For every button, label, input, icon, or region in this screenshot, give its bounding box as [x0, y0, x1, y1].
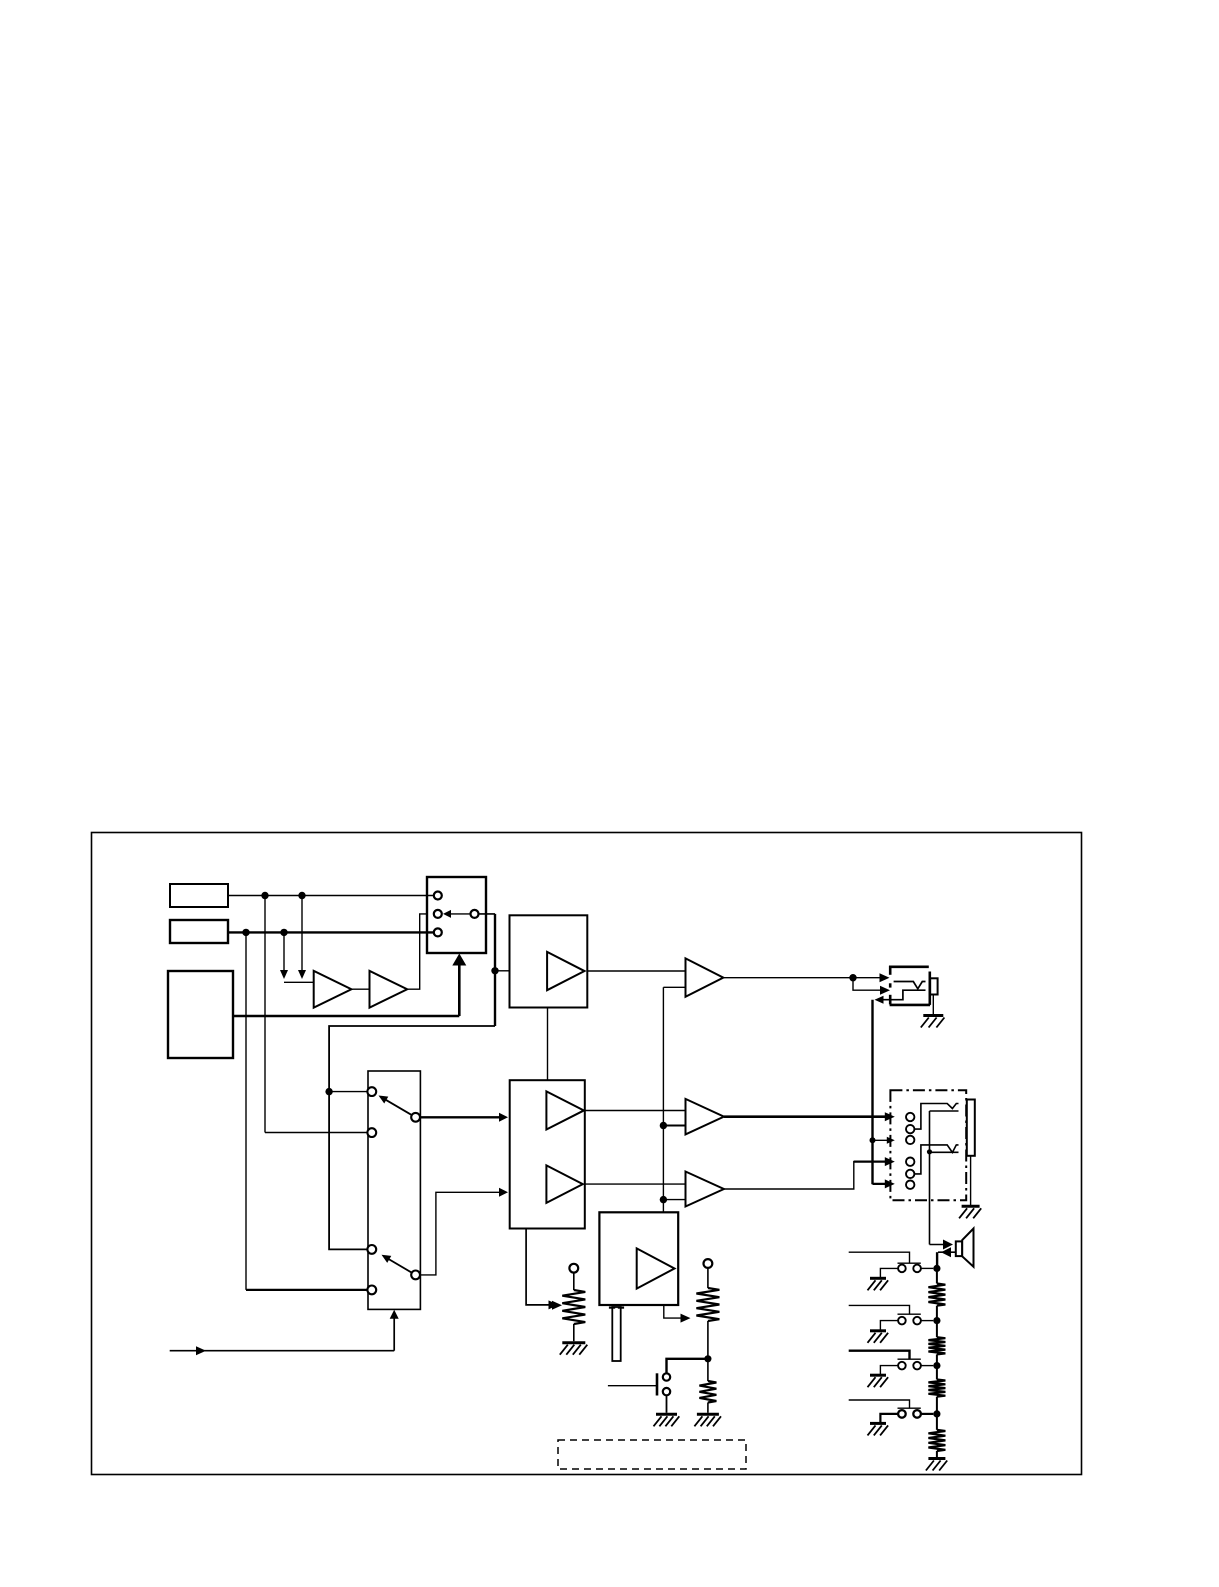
- arrow out of speaker (-): [938, 1251, 956, 1253]
- wire U1 output to amp A2: [587, 970, 685, 972]
- J2 pin 2: [906, 1125, 914, 1133]
- wire node 4 to resistor R4: [936, 1414, 938, 1430]
- arrow into speaker (+): [930, 1244, 948, 1246]
- wire SW3 to ground: [880, 1321, 898, 1330]
- wire IN2 to S1 pin 3: [228, 931, 434, 933]
- wire SW1 to ground: [666, 1395, 668, 1413]
- switch SW4 contact b: [913, 1362, 921, 1370]
- wire resistor R2 down: [936, 1354, 938, 1365]
- wire junction to A3 lower input: [663, 1125, 685, 1127]
- wire node A vertical: [494, 914, 496, 1026]
- junction dot ladder node 1: [933, 1265, 940, 1272]
- J2 sleeve bar: [967, 1100, 975, 1156]
- switch SW5 contact a: [898, 1410, 906, 1418]
- switch SW2 contact a: [898, 1265, 906, 1273]
- switch SW3 contact b: [913, 1317, 921, 1325]
- wire SW4 to ground: [880, 1366, 898, 1375]
- wire SW3 to ladder: [921, 1320, 933, 1322]
- wire U2 bottom to volume pot VR1 wiper: [526, 1229, 552, 1305]
- S2 lower wiper arm with arrow: [385, 1257, 413, 1273]
- switch SW3 contact a: [898, 1317, 906, 1325]
- pushbutton SW1 contacts: [663, 1373, 670, 1380]
- pot VR1 resistor body: [562, 1290, 585, 1324]
- ground at ladder bottom: [928, 1457, 945, 1460]
- wire IN1 to S1 pin 1: [228, 895, 434, 897]
- junction dot distribution to A3: [660, 1122, 667, 1129]
- ground for SW4: [870, 1374, 886, 1377]
- junction dot on IN2 wire (x284): [280, 929, 287, 936]
- junction dot on J1-J2 wire: [870, 1137, 876, 1143]
- wire U3 output to pot VR2 wiper: [664, 1305, 682, 1318]
- wire SW2 to ladder: [921, 1267, 933, 1269]
- resistor R4: [928, 1430, 945, 1451]
- ground under R5: [697, 1413, 719, 1416]
- amplifier A4: [686, 1172, 724, 1207]
- selector switch box S2: [368, 1071, 420, 1309]
- S1 pin 1: [434, 892, 442, 900]
- wire R5 to ground: [707, 1403, 709, 1413]
- pot VR2 wire: [707, 1268, 709, 1288]
- junction dot on S2 feed (x329): [325, 1088, 332, 1095]
- wire junction to A4 lower input: [663, 1199, 685, 1201]
- pot VR1 wire: [573, 1273, 575, 1290]
- amplifier triangle in U3: [637, 1248, 675, 1288]
- ground under J1: [923, 1014, 943, 1017]
- S1 pin 2: [434, 910, 442, 918]
- wire CTRL block to S1 control arrow: [233, 1015, 459, 1018]
- amp block U3: [599, 1212, 678, 1305]
- wire from x302 junction down to amp A1 input (arrow): [301, 896, 303, 971]
- pot VR1 wiper arrowhead: [552, 1301, 562, 1310]
- junction dot on IN1 wire (x265): [261, 892, 268, 899]
- amplifier A1a: [314, 971, 352, 1008]
- ground for SW2: [870, 1277, 886, 1280]
- J2 pin 5: [906, 1170, 914, 1178]
- wire control into SW1: [608, 1385, 658, 1387]
- wire J1 switch contact down to jack box J2: [871, 1000, 873, 1184]
- switch SW2 contact b: [913, 1265, 921, 1273]
- wire tee into A2 lower input: [663, 986, 685, 988]
- arrow junction to J2 pin 3: [873, 1139, 891, 1141]
- wire SW4 to ladder: [921, 1365, 933, 1367]
- junction dot distribution to A4: [660, 1196, 667, 1203]
- speaker horn: [962, 1229, 973, 1267]
- wire U2 lower output to A4: [585, 1183, 686, 1185]
- pot VR1 top terminal: [569, 1264, 578, 1273]
- ground under SW1: [656, 1413, 677, 1416]
- wire A1a to A1b: [351, 988, 369, 990]
- junction dot node B: [704, 1355, 711, 1362]
- S2 pin c2 (common upper): [411, 1113, 420, 1122]
- junction dot on IN2 wire (x246): [242, 929, 249, 936]
- dashed box (note area): [558, 1440, 746, 1469]
- arrow control into S2 bottom: [393, 1315, 395, 1351]
- ground for SW3: [870, 1329, 886, 1332]
- amp block U1: [510, 915, 588, 1007]
- S2 upper wiper arm with arrow: [382, 1097, 413, 1115]
- wire node 2 to resistor R2: [936, 1321, 938, 1338]
- junction dot on IN1 wire (x302): [298, 892, 305, 899]
- switch SW5 contact b: [913, 1410, 921, 1418]
- J1 tip contact with V notch: [894, 982, 926, 989]
- J2 lower jack tip contact with V notch: [914, 1145, 958, 1174]
- wire node 1 to resistor R1: [936, 1268, 938, 1283]
- wire node B to pushbutton SW1: [667, 1359, 708, 1374]
- block IN1 (upper small box): [170, 884, 228, 907]
- amplifier triangle U2 upper: [546, 1091, 584, 1129]
- J2 pin 3: [906, 1136, 914, 1144]
- switch SW4 control wire: [849, 1351, 910, 1360]
- amplifier triangle in U1: [547, 952, 584, 990]
- wire A1b output up to S1 pin 2: [407, 914, 427, 989]
- wire from x284 junction down to amp A1 input (arrow): [283, 932, 285, 970]
- wire resistor R4 down: [936, 1451, 938, 1457]
- S2 pin c1: [367, 1087, 376, 1096]
- ground under J2: [962, 1205, 980, 1208]
- wire distribution vertical (x663): [662, 987, 664, 1212]
- arrow wire bottom to J2 pin 6: [873, 1183, 891, 1185]
- S2 pin c6: [367, 1286, 376, 1295]
- wire from x246 junction down to selector S2 pin c6: [245, 932, 247, 1290]
- wire node A to amp block U1 input: [495, 970, 510, 972]
- switch SW2 actuator bracket: [898, 1262, 921, 1264]
- S2 pin c3: [367, 1128, 376, 1137]
- wire A4 output to J2 pin4: [724, 1162, 889, 1189]
- pot VR2 resistor body: [696, 1288, 719, 1321]
- switch SW5 actuator bracket: [898, 1407, 921, 1409]
- junction dot on speaker wire: [927, 1149, 932, 1154]
- wire J2 to speaker (vertical): [929, 1111, 931, 1245]
- switch SW2 control wire: [849, 1252, 910, 1263]
- block IN2 (lower small box): [170, 920, 228, 943]
- J2 upper jack tip contact with V notch: [914, 1104, 958, 1130]
- switch SW3 actuator bracket: [898, 1313, 921, 1315]
- J2 upper jack switch contact: [930, 1110, 959, 1112]
- ground under VR1: [562, 1341, 585, 1344]
- amplifier A2: [686, 958, 724, 996]
- wire J1 sleeve to ground: [932, 995, 934, 1015]
- wire into amp A1: [284, 981, 314, 983]
- J2 pin 1: [906, 1113, 914, 1121]
- resistor R5: [699, 1381, 716, 1403]
- switch SW4 contact a: [898, 1362, 906, 1370]
- wire S2 upper output to U2 input 1: [420, 1116, 502, 1118]
- wire junction to S2 pin c1: [329, 1091, 367, 1093]
- input wire with arrow to S2: [170, 1350, 395, 1352]
- wire U2 upper output to A3: [585, 1110, 686, 1112]
- wire A3 output to J2 pin1: [724, 1115, 889, 1118]
- switch SW5 control wire: [849, 1400, 910, 1408]
- S2 pin c4: [367, 1245, 376, 1254]
- wire U1 bottom to U2 top: [547, 1008, 549, 1081]
- mechanical shaft under U3: [612, 1307, 620, 1361]
- J1 sleeve terminal: [930, 978, 938, 994]
- amp block U2: [510, 1080, 585, 1228]
- speaker driver: [956, 1241, 962, 1256]
- wire node A down to selector S2: [329, 1026, 495, 1249]
- amplifier triangle U2 lower: [546, 1165, 582, 1203]
- J2 pin 6: [906, 1181, 914, 1189]
- J2 lower jack switch contact: [930, 1151, 959, 1153]
- wire J2 sleeve to ground: [970, 1156, 972, 1205]
- resistor R3: [928, 1380, 945, 1397]
- ground for SW5: [870, 1422, 886, 1425]
- wire A2 output to jack J1: [723, 977, 853, 979]
- junction dot ladder node 4: [933, 1410, 940, 1417]
- wire node B to resistor R5: [707, 1359, 709, 1381]
- switch SW4 actuator bracket: [898, 1358, 921, 1360]
- S1 pin 3: [434, 928, 442, 936]
- wire SW2 to ground: [880, 1268, 898, 1277]
- junction dot node A: [491, 967, 498, 974]
- wire SW5 to ladder: [921, 1413, 933, 1415]
- wire speaker to ladder node 1: [936, 1252, 938, 1268]
- pot VR1 wire to ground: [573, 1324, 575, 1341]
- J1 switch contact: [878, 990, 926, 1000]
- junction dot ladder node 2: [933, 1317, 940, 1324]
- arrow into J1 ring contact: [853, 978, 885, 991]
- wire SW5 to ground: [880, 1414, 898, 1423]
- wire S2 lower output to U2 input 2: [420, 1192, 502, 1275]
- amplifier A3: [686, 1099, 724, 1135]
- jack box J2 outline (dash-dot): [890, 1090, 966, 1200]
- S1 wiper arrow pin4 to pin2: [447, 913, 471, 915]
- junction dot at A2 output node: [849, 974, 856, 981]
- arrow into J1 tip contact: [853, 977, 885, 979]
- pot VR2 wire to node B: [707, 1321, 709, 1359]
- outer border frame: [92, 833, 1082, 1475]
- block CTRL (large box): [168, 971, 233, 1058]
- wire from x265 junction down to selector S2 pin c3: [264, 896, 266, 1133]
- switch SW3 control wire: [849, 1305, 910, 1314]
- wire node 3 to resistor R3: [936, 1366, 938, 1380]
- pot VR2 top terminal: [704, 1259, 713, 1268]
- S2 pin c5 (common lower): [411, 1271, 420, 1280]
- J2 pin 4: [906, 1158, 914, 1166]
- jack J1 shell: [889, 965, 929, 968]
- pushbutton SW1 actuator bar: [656, 1373, 659, 1395]
- S1 pin 4 (common): [471, 910, 479, 918]
- amplifier A1b: [370, 971, 408, 1008]
- junction dot ladder node 3: [933, 1362, 940, 1369]
- wire S1 common to node A: [479, 913, 496, 915]
- wire resistor R1 down: [936, 1306, 938, 1321]
- wire resistor R3 down: [936, 1397, 938, 1414]
- resistor R2: [928, 1337, 945, 1354]
- switch box S1: [427, 877, 486, 953]
- resistor R1: [928, 1284, 945, 1306]
